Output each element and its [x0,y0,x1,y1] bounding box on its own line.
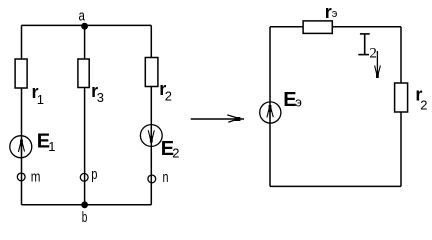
resistor R3 [78,59,89,88]
wire : right branch vertical [150,25,152,204]
current arrow I2 [376,51,378,75]
wire : left circuit bottom rail b [22,204,152,206]
svg-text:p: p [91,166,97,183]
svg-text:b: b [82,209,88,225]
source E2 [140,125,162,147]
resistor R1 [15,59,27,88]
wire : right circuit left vertical [269,27,271,187]
resistor Re (equivalent) [303,21,332,34]
wire : left circuit top rail a [22,24,152,26]
current label I2 [360,33,370,35]
svg-text:2: 2 [420,97,427,112]
node a [81,23,88,30]
terminal p [80,173,88,181]
wire : middle branch vertical [84,25,86,204]
node b [81,201,88,208]
svg-text:2: 2 [369,46,377,62]
wire : left branch vertical [21,25,23,204]
wire : right circuit top rail [270,26,401,28]
svg-text:2: 2 [165,89,172,104]
svg-text:2: 2 [172,146,179,161]
svg-text:m: m [31,168,41,185]
svg-text:n: n [163,169,169,186]
wire : right circuit right vertical [400,27,402,187]
svg-text:1: 1 [37,92,44,107]
svg-text:э: э [295,94,302,109]
terminal n [148,175,156,183]
source Ee (equivalent) [260,102,281,123]
resistor R2 right [395,83,408,112]
svg-text:r: r [325,2,332,22]
svg-text:a: a [79,8,86,25]
svg-text:э: э [332,8,338,20]
resistor R2 left [145,58,158,87]
svg-text:1: 1 [48,139,55,154]
wire : right circuit bottom rail [270,185,401,187]
source E1 [10,136,32,158]
svg-text:3: 3 [97,90,104,105]
equivalence arrow [191,118,244,120]
terminal m [17,173,25,181]
